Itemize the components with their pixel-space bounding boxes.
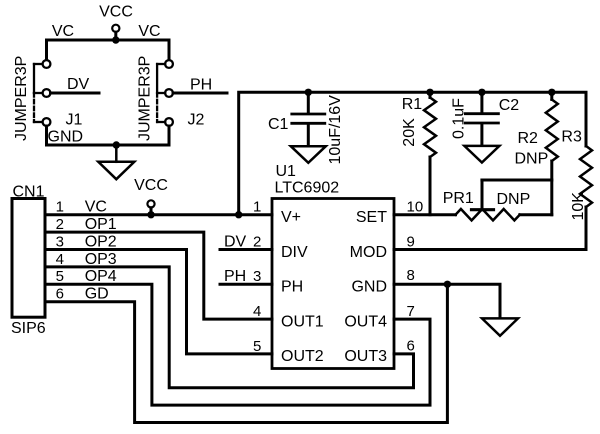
junction dot <box>478 89 485 96</box>
svg-text:8: 8 <box>407 267 415 284</box>
svg-text:3: 3 <box>253 268 261 285</box>
svg-text:VCC: VCC <box>99 4 133 21</box>
svg-text:C1: C1 <box>268 116 289 133</box>
junction dot <box>426 89 433 96</box>
svg-text:9: 9 <box>407 233 415 250</box>
svg-text:OP3: OP3 <box>85 251 117 268</box>
ground symbol (under C1) <box>291 146 326 163</box>
ground symbol (under jumpers) <box>98 145 134 179</box>
wire GD to GND route <box>45 284 447 422</box>
svg-text:0.1uF: 0.1uF <box>451 98 468 139</box>
svg-text:PH: PH <box>224 268 246 285</box>
resistor R1 <box>401 92 436 214</box>
svg-text:OP2: OP2 <box>85 233 117 250</box>
svg-text:OUT3: OUT3 <box>344 348 387 365</box>
svg-text:R3: R3 <box>561 129 582 146</box>
svg-text:10uF/16V: 10uF/16V <box>327 95 344 165</box>
junction dot <box>235 211 242 218</box>
wire DV stub to DIV pin <box>220 248 272 251</box>
op IC U1 LTC6902 <box>272 163 394 369</box>
svg-text:3: 3 <box>56 233 64 250</box>
svg-text:R1: R1 <box>402 96 423 113</box>
capacitor C2 <box>451 92 520 145</box>
junction dot <box>112 36 119 43</box>
wire DNP bridge box <box>482 180 552 215</box>
wire jumpers bottom rail <box>47 126 170 145</box>
svg-text:VC: VC <box>138 23 160 40</box>
svg-text:JUMPER3P: JUMPER3P <box>137 56 154 141</box>
wire VC rail <box>47 40 170 60</box>
svg-text:OP1: OP1 <box>85 216 117 233</box>
resistor R2 <box>515 92 558 180</box>
svg-text:DV: DV <box>67 76 90 93</box>
capacitor C1 <box>268 92 344 164</box>
wire DV stub <box>51 92 100 95</box>
jumper J2 <box>137 56 205 141</box>
jumper J1 <box>13 56 83 141</box>
wire OP3 to OUT3 route <box>45 267 414 388</box>
svg-text:DNP: DNP <box>515 151 549 168</box>
svg-text:LTC6902: LTC6902 <box>275 180 340 197</box>
svg-text:GND: GND <box>351 279 387 296</box>
wire MOD to R3 <box>394 248 586 251</box>
svg-text:PH: PH <box>281 279 303 296</box>
svg-text:PH: PH <box>190 77 212 94</box>
wire OP1 to OUT1 <box>45 232 272 319</box>
svg-text:6: 6 <box>407 338 415 355</box>
svg-text:J1: J1 <box>66 112 83 129</box>
svg-text:SET: SET <box>356 209 387 226</box>
svg-text:DNP: DNP <box>497 191 531 208</box>
svg-text:5: 5 <box>56 268 64 285</box>
svg-text:C2: C2 <box>499 97 520 114</box>
svg-text:5: 5 <box>253 338 261 355</box>
svg-text:MOD: MOD <box>350 244 387 261</box>
svg-text:J2: J2 <box>188 112 205 129</box>
svg-text:VC: VC <box>52 23 74 40</box>
svg-text:U1: U1 <box>276 163 297 180</box>
svg-text:6: 6 <box>56 286 64 303</box>
svg-text:DIV: DIV <box>281 244 308 261</box>
svg-text:VCC: VCC <box>134 177 168 194</box>
svg-text:VC: VC <box>85 199 107 216</box>
junction dot <box>548 89 555 96</box>
junction dot <box>305 89 312 96</box>
svg-text:10K: 10K <box>570 192 587 221</box>
svg-text:OP4: OP4 <box>85 268 117 285</box>
svg-text:PR1: PR1 <box>443 190 474 207</box>
connector CN1 <box>11 184 64 338</box>
junction dot <box>444 281 451 288</box>
svg-text:OUT2: OUT2 <box>281 348 324 365</box>
svg-text:4: 4 <box>253 303 261 320</box>
wire GND pin to ground <box>394 284 500 318</box>
trimmer PR1 <box>443 180 520 220</box>
junction dot <box>147 211 154 218</box>
ground symbol (right) <box>482 318 518 335</box>
svg-text:OUT4: OUT4 <box>344 313 387 330</box>
wire PH stub <box>173 92 227 95</box>
svg-text:1: 1 <box>253 199 261 216</box>
wire PR1 right terminal <box>520 213 552 216</box>
wire VCC rail (top right) <box>239 92 586 214</box>
svg-text:2: 2 <box>56 216 64 233</box>
svg-text:2: 2 <box>253 233 261 250</box>
wire CN1 pin1 to U1 V+ <box>45 213 272 216</box>
svg-text:10: 10 <box>407 199 424 216</box>
wire SET to PR1 <box>394 213 456 216</box>
power flag VCC (above pin 1) <box>134 177 168 215</box>
wire PH stub to PH pin <box>220 283 272 286</box>
svg-text:R2: R2 <box>518 130 539 147</box>
svg-text:JUMPER3P: JUMPER3P <box>13 56 30 141</box>
svg-text:OUT1: OUT1 <box>281 313 324 330</box>
ground symbol (under C2) <box>464 146 499 163</box>
svg-text:V+: V+ <box>281 209 301 226</box>
svg-text:4: 4 <box>56 251 64 268</box>
svg-text:GD: GD <box>85 286 109 303</box>
resistor R3 <box>561 129 592 250</box>
wire OP2 to OUT2 <box>45 250 272 354</box>
svg-text:7: 7 <box>407 303 415 320</box>
svg-text:GND: GND <box>48 129 84 146</box>
svg-text:DV: DV <box>224 233 247 250</box>
svg-text:20K: 20K <box>401 118 418 147</box>
svg-text:1: 1 <box>56 199 64 216</box>
svg-text:SIP6: SIP6 <box>11 320 46 337</box>
wire OP4 to OUT4 route <box>45 284 430 405</box>
power flag VCC (top) <box>99 4 133 41</box>
junction dot <box>113 141 120 148</box>
